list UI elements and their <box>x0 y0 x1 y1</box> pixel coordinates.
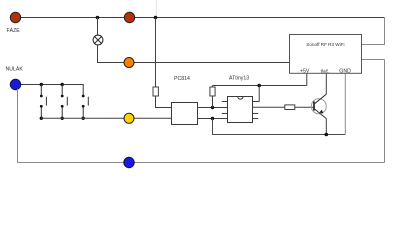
junction switch S3 bottom <box>82 117 85 120</box>
wire opto out bottom to IC <box>198 118 228 120</box>
junction switch S2 bottom <box>61 117 64 120</box>
wire GND drop <box>213 119 346 135</box>
wire neutral bottom rail <box>18 162 385 164</box>
IC U2 ATtiny13 body <box>228 97 253 123</box>
svg-text:NULÁK: NULÁK <box>6 66 24 73</box>
resistor R2 <box>210 87 215 96</box>
module U3 Sonoff RF R3 WiFi <box>290 35 362 74</box>
junction switch S2 top <box>61 83 64 86</box>
node switched neutral yellow <box>124 113 134 123</box>
wire down to R1 <box>155 18 157 88</box>
wire switch rail to opto <box>41 117 124 119</box>
wire neutral to switch rail <box>21 84 84 86</box>
wire 5V rail <box>213 85 307 87</box>
junction emitter GND <box>325 133 329 137</box>
junction R2 bottom <box>211 106 214 109</box>
wire 5V pin drop <box>306 73 308 85</box>
wire emitter to GND rail <box>325 119 327 135</box>
wire lamp to switched live <box>98 45 125 63</box>
switch S2 <box>61 85 68 119</box>
node neutral tap blue <box>124 157 134 167</box>
wire VCC to IC pin 8 <box>253 86 260 102</box>
wire neutral into Sonoff <box>362 59 385 61</box>
wire R2 top to 5V rail <box>212 86 214 88</box>
svg-text:PC814: PC814 <box>174 76 190 82</box>
transistor Q1 <box>311 94 326 118</box>
node NULÁK terminal blue <box>10 79 20 89</box>
node switched live terminal orange <box>124 58 134 68</box>
faint artifact line <box>155 0 157 17</box>
junction VCC branch <box>257 84 261 88</box>
optocoupler U1 PC814 <box>172 103 198 125</box>
wire live top rail <box>20 17 385 19</box>
wire switched live to Sonoff <box>134 62 290 64</box>
svg-text:FÁZE: FÁZE <box>7 27 21 34</box>
switch S3 <box>82 84 89 118</box>
wire R2 bottom <box>212 96 214 108</box>
junction lamp branch <box>96 16 100 20</box>
wire GND riser to Sonoff <box>344 73 346 134</box>
IC U2 ATtiny13 pins <box>222 102 258 119</box>
wire neutral down <box>17 89 19 163</box>
resistor R3 <box>285 105 295 110</box>
junction R1 branch <box>154 16 158 20</box>
wire R1 to opto input <box>156 96 172 108</box>
lamp E1 <box>93 35 103 45</box>
svg-text:ATtiny13: ATtiny13 <box>229 75 249 81</box>
svg-text:tlač.: tlač. <box>321 68 330 74</box>
junction switch S1 top <box>40 83 43 86</box>
IC notch <box>238 97 243 100</box>
wire yellow to opto <box>134 117 172 119</box>
node FÁZE terminal <box>10 12 20 22</box>
resistor R1 <box>153 87 158 96</box>
node live tap brown <box>124 12 134 22</box>
wire lamp drop <box>97 18 99 36</box>
wire R3 to base <box>295 106 314 108</box>
switch S1 <box>40 85 47 119</box>
wire neutral right riser <box>384 60 386 163</box>
wire IC out to R3 <box>253 106 285 108</box>
svg-text:+5V: +5V <box>300 68 310 74</box>
svg-text:GND: GND <box>339 68 351 74</box>
wire opto out top to IC <box>198 107 228 109</box>
junction GND drop <box>211 117 214 120</box>
wire collector to tlac pin <box>325 73 327 94</box>
svg-text:Sonoff RF R3 WiFi: Sonoff RF R3 WiFi <box>306 42 344 47</box>
junction switch S1 bottom <box>40 117 43 120</box>
wire live right drop to Sonoff <box>362 18 385 45</box>
